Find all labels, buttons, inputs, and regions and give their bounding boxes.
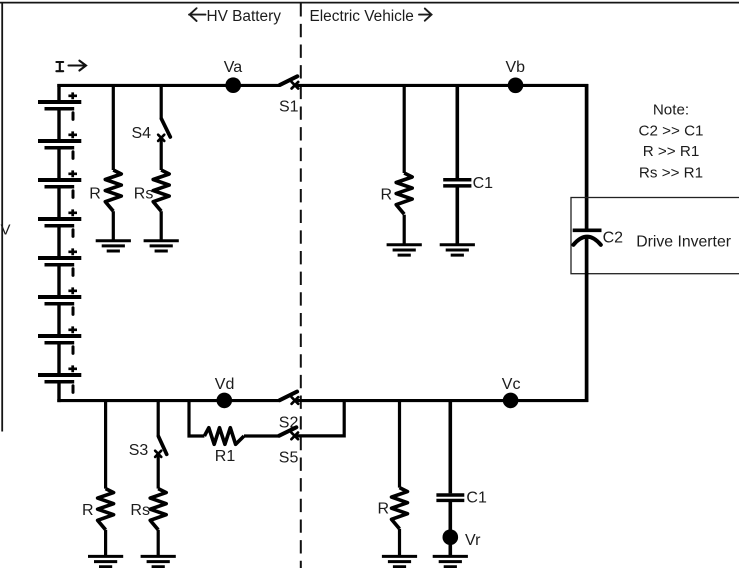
wire Rs to ground (battery side bottom) bbox=[157, 530, 160, 557]
battery cell 1 bbox=[38, 92, 81, 119]
resistor Rs (battery side top) bbox=[153, 170, 169, 211]
wire R1 to S5 bbox=[244, 434, 279, 437]
wire S5 to bottom bus right leg bbox=[295, 399, 345, 436]
svg-text:Note:: Note: bbox=[653, 102, 689, 119]
switch S2 (blade and contact) bbox=[280, 392, 299, 404]
svg-text:R: R bbox=[82, 502, 94, 519]
switch S1 (blade and contact) bbox=[280, 76, 298, 88]
node Vb bbox=[508, 78, 524, 94]
svg-text:Vc: Vc bbox=[502, 376, 521, 393]
node Vd bbox=[217, 393, 233, 409]
svg-text:Vd: Vd bbox=[215, 376, 235, 393]
switch S4 (blade and contact) bbox=[158, 119, 170, 141]
wire Rs to ground (battery side top) bbox=[160, 211, 163, 241]
wire bottom bus (S2 to bottom-right corner) bbox=[295, 399, 588, 402]
boundary dashed line (HV Battery / Electric Vehicle) bbox=[300, 3, 302, 568]
box Drive Inverter bbox=[571, 198, 739, 274]
capacitor C1 (EV side bottom) bbox=[436, 495, 464, 500]
svg-text:HV Battery: HV Battery bbox=[207, 8, 282, 25]
svg-text:R: R bbox=[89, 185, 101, 202]
wire branch to C1 (EV side top) bbox=[455, 84, 459, 178]
svg-text:Drive Inverter: Drive Inverter bbox=[636, 233, 731, 250]
wire branch to S3 (battery side bottom) bbox=[157, 402, 160, 437]
wire R1 branch left leg (Vd side) bbox=[189, 399, 204, 436]
svg-text:C2: C2 bbox=[603, 230, 624, 247]
wire S3 to Rs (battery side bottom) bbox=[157, 455, 160, 489]
svg-text:C1: C1 bbox=[466, 489, 487, 506]
svg-text:Vb: Vb bbox=[506, 59, 526, 76]
battery cell 4 bbox=[38, 209, 81, 236]
battery cell 7 bbox=[38, 326, 81, 353]
node Vc bbox=[503, 393, 519, 409]
svg-text:V: V bbox=[1, 221, 11, 238]
wire right bus (C2 to bottom corner) bbox=[585, 238, 589, 402]
ground (battery side top Rs) bbox=[144, 241, 179, 251]
svg-text:R: R bbox=[380, 187, 392, 204]
ground (battery side bottom Rs) bbox=[141, 556, 176, 566]
resistor Rs (battery side bottom) bbox=[150, 489, 166, 530]
wire branch to S4 (battery side top) bbox=[160, 84, 163, 119]
svg-text:Va: Va bbox=[224, 59, 242, 76]
svg-text:Rs: Rs bbox=[134, 185, 154, 202]
battery cell 6 bbox=[38, 287, 81, 314]
svg-text:S3: S3 bbox=[129, 442, 149, 459]
svg-text:S5: S5 bbox=[279, 449, 299, 466]
ground (EV side bottom R) bbox=[382, 556, 417, 566]
wire R to ground (EV side top) bbox=[403, 215, 406, 245]
wire C1 to ground (EV side top) bbox=[455, 187, 459, 245]
wire C1 to Vr bbox=[448, 502, 452, 532]
label Electric Vehicle with right arrow bbox=[310, 8, 432, 25]
wire R to ground (battery side top) bbox=[112, 211, 115, 241]
wire branch to R (EV side bottom) bbox=[398, 402, 401, 488]
ground (EV side top R) bbox=[387, 245, 422, 255]
svg-text:C2 >> C1: C2 >> C1 bbox=[638, 122, 703, 139]
svg-text:R1: R1 bbox=[215, 448, 236, 465]
ground (EV side bottom Vr) bbox=[433, 556, 468, 566]
resistor R (battery side top) bbox=[105, 170, 121, 211]
svg-text:Electric Vehicle: Electric Vehicle bbox=[310, 8, 414, 25]
svg-text:Rs: Rs bbox=[130, 502, 150, 519]
battery cell 3 bbox=[38, 170, 81, 197]
note text bbox=[638, 102, 703, 182]
svg-text:R >> R1: R >> R1 bbox=[643, 143, 700, 160]
capacitor C1 (EV side top) bbox=[443, 180, 471, 186]
svg-text:R: R bbox=[377, 501, 389, 518]
ground (EV side top C1) bbox=[440, 245, 475, 255]
wire top bus (battery to S1) bbox=[57, 84, 280, 87]
label HV Battery with left arrow bbox=[189, 8, 281, 25]
wire branch to R (battery side top) bbox=[112, 84, 115, 170]
wire branch to C1 (EV side bottom) bbox=[448, 402, 452, 493]
wire R to ground (battery side bottom) bbox=[104, 530, 107, 557]
resistor R (battery side bottom) bbox=[98, 489, 114, 530]
wire branch to R (EV side top) bbox=[403, 84, 406, 173]
resistor R1 bbox=[204, 428, 244, 445]
ground (battery side top R) bbox=[96, 241, 131, 251]
wire S4 to Rs (battery side top) bbox=[160, 139, 163, 170]
node Vr bbox=[443, 529, 459, 545]
svg-text:S1: S1 bbox=[279, 99, 299, 116]
wire R to ground (EV side bottom) bbox=[398, 529, 401, 557]
resistor R (EV side bottom) bbox=[392, 488, 408, 529]
wire branch to R (battery side bottom) bbox=[104, 402, 107, 489]
switch S5 (blade and contact) bbox=[279, 427, 298, 439]
battery cell 8 bbox=[38, 365, 81, 392]
wire top bus (S1 to top-right corner) bbox=[295, 84, 588, 87]
svg-text:S4: S4 bbox=[132, 125, 152, 142]
battery V (8-cell stack) bbox=[38, 92, 81, 392]
wire right bus (top corner to C2) bbox=[585, 84, 589, 229]
svg-text:C1: C1 bbox=[473, 175, 494, 192]
node Va bbox=[225, 77, 241, 93]
capacitor C2 (polarized) bbox=[573, 230, 602, 245]
wire battery column bbox=[57, 84, 60, 402]
resistor R (EV side top) bbox=[396, 173, 412, 214]
ground (battery side bottom R) bbox=[88, 556, 123, 566]
wire Vr to ground bbox=[448, 544, 452, 557]
svg-text:Rs >> R1: Rs >> R1 bbox=[639, 164, 703, 181]
switch S3 (blade and contact) bbox=[155, 436, 167, 457]
battery cell 5 bbox=[38, 248, 81, 275]
svg-text:Vr: Vr bbox=[465, 532, 481, 549]
label I (battery current) with arrow bbox=[56, 61, 86, 72]
battery cell 2 bbox=[38, 131, 81, 158]
wire bottom bus (battery to S2) bbox=[57, 399, 279, 402]
